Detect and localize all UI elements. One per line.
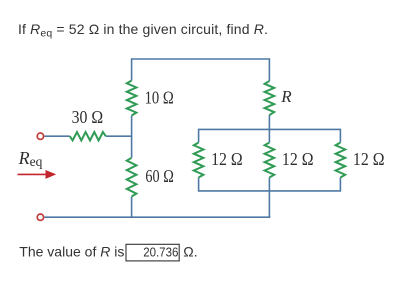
svg-text:Ω.: Ω. [183,243,197,259]
svg-text:30 Ω: 30 Ω [72,107,104,127]
svg-text:R: R [18,148,30,168]
svg-text:60 Ω: 60 Ω [145,166,173,186]
svg-text:20.736: 20.736 [143,245,178,260]
svg-text:The value of R is: The value of R is [19,243,124,259]
svg-text:If Req = 52 Ω in the given cir: If Req = 52 Ω in the given circuit, find… [18,21,268,40]
svg-text:12 Ω: 12 Ω [353,149,385,169]
svg-text:12 Ω: 12 Ω [211,149,243,169]
svg-text:eq: eq [30,154,43,169]
svg-text:12 Ω: 12 Ω [282,149,314,169]
svg-text:R: R [280,87,292,106]
svg-text:10 Ω: 10 Ω [145,87,174,107]
